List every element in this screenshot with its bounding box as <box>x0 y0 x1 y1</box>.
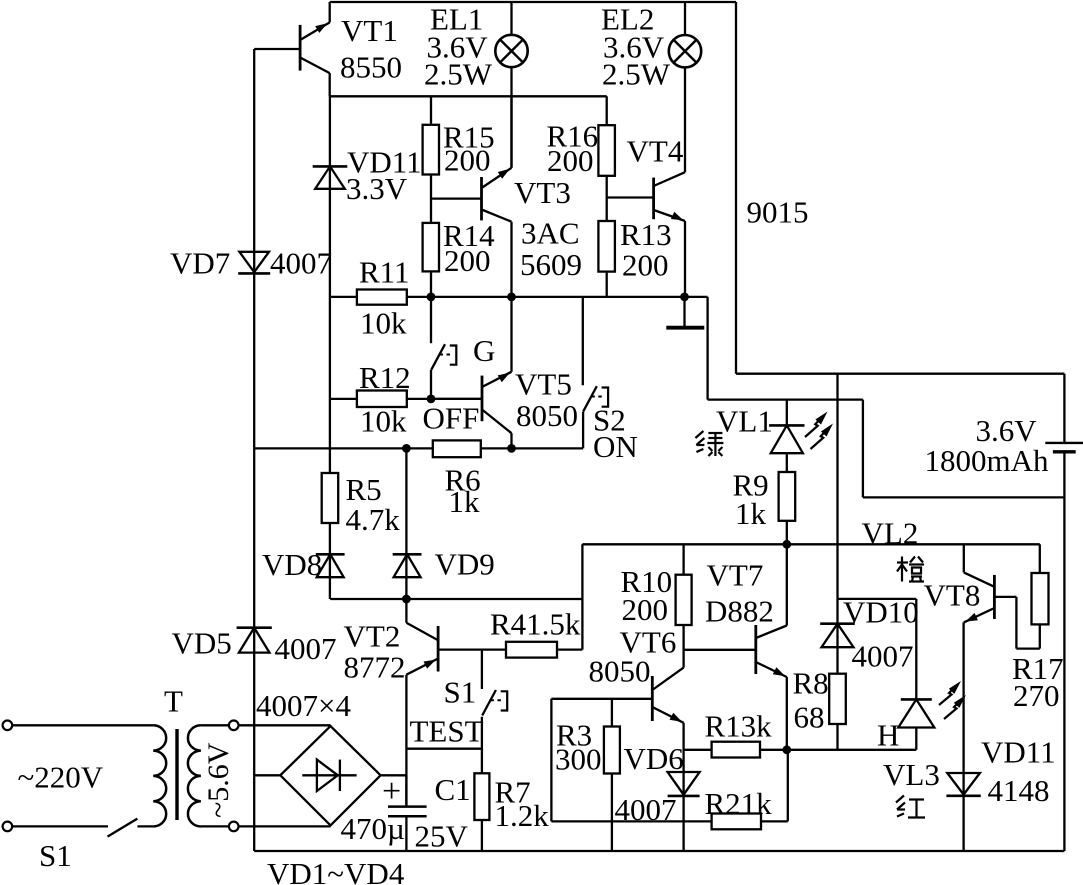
label VD7 <box>170 246 230 281</box>
svg-text:8050: 8050 <box>516 398 578 433</box>
label R11 10k <box>360 306 407 341</box>
wire H column <box>915 599 917 700</box>
svg-text:200: 200 <box>547 143 594 178</box>
label R9 1k <box>735 496 767 531</box>
wire bridge right <box>381 774 407 776</box>
wire VL1 branch right riser <box>862 400 864 498</box>
resistor R8 <box>829 674 846 724</box>
LED H (VL2 orange) <box>898 681 966 728</box>
label 220V <box>18 760 104 795</box>
resistor R13 <box>598 221 615 272</box>
svg-text:VT1: VT1 <box>341 13 398 48</box>
label R6 <box>445 463 481 498</box>
wire R11 row <box>330 296 708 298</box>
wire 9015 branch horizontal <box>736 373 1064 375</box>
resistor R10 <box>676 575 692 625</box>
label VD10 4007 <box>852 639 914 674</box>
svg-text:200: 200 <box>622 592 669 627</box>
transistor VT2 <box>406 623 438 675</box>
svg-text:R8: R8 <box>793 666 829 701</box>
svg-text:R12: R12 <box>359 360 411 395</box>
label EL1 <box>430 2 483 37</box>
label 4007x4 <box>256 688 351 723</box>
svg-text:10k: 10k <box>360 306 407 341</box>
label R5 <box>346 472 382 507</box>
wire bridge left <box>254 774 280 776</box>
resistor R14 <box>423 223 439 272</box>
svg-text:R41.5k: R41.5k <box>490 607 581 642</box>
wire VD8-VD9 row <box>330 598 582 600</box>
svg-text:R13k: R13k <box>705 709 773 744</box>
label R15 200 <box>444 143 491 178</box>
terminal secondary top <box>229 721 239 731</box>
label R15 <box>443 120 495 155</box>
label R16 200 <box>547 143 594 178</box>
svg-text:2.5W: 2.5W <box>424 57 493 92</box>
svg-text:VT2: VT2 <box>344 619 401 654</box>
switch S2 <box>583 386 608 412</box>
zener VD11 3.3V <box>313 166 348 188</box>
svg-text:4.7k: 4.7k <box>346 502 401 537</box>
label VL3 <box>883 757 940 792</box>
terminal AC top-left <box>3 721 13 731</box>
svg-text:8772: 8772 <box>344 650 406 685</box>
wire secondary top to bridge <box>239 725 331 727</box>
wire VT2 emitter column <box>405 675 407 807</box>
resistor R4 <box>506 642 557 658</box>
svg-text:H: H <box>877 718 899 753</box>
wire VT6 base row <box>551 698 652 700</box>
label VT7 <box>707 558 764 593</box>
wire bottom bus <box>254 850 1064 852</box>
label VT5 8050 <box>516 398 578 433</box>
label T <box>164 684 183 719</box>
wire G lower link <box>430 370 432 399</box>
wire second rail <box>330 95 607 97</box>
svg-text:VL3: VL3 <box>883 757 940 792</box>
resistor R17 <box>1032 573 1049 624</box>
wire secondary bottom <box>201 825 229 827</box>
label ON <box>593 429 638 464</box>
svg-text:200: 200 <box>444 243 491 278</box>
diode VD8 <box>316 554 345 577</box>
node R12-G <box>427 395 436 404</box>
label R6 1k <box>449 484 481 519</box>
lamp EL2 <box>669 35 701 67</box>
resistor R5 <box>322 473 339 523</box>
label 3.3V <box>346 171 408 206</box>
transformer T core <box>175 729 178 820</box>
svg-text:4007: 4007 <box>275 631 337 666</box>
svg-text:G: G <box>473 333 495 368</box>
terminal secondary bottom <box>229 822 239 832</box>
svg-text:8550: 8550 <box>340 50 402 85</box>
wire EL2-VT4 column <box>684 67 686 172</box>
svg-text:2.5W: 2.5W <box>602 57 671 92</box>
label VD9 <box>435 547 495 582</box>
label 8550 <box>340 50 402 85</box>
label G <box>473 333 495 368</box>
label S1 AC label <box>39 838 72 873</box>
svg-text:8050: 8050 <box>589 654 651 689</box>
label VT2 <box>344 619 401 654</box>
wire R6 row <box>254 447 583 449</box>
label R4 1.5k <box>490 607 581 642</box>
wire R12 row <box>330 398 482 400</box>
wire R2 row <box>551 820 787 822</box>
LED VL1 green <box>769 412 833 454</box>
label battery 3.6V <box>976 413 1038 448</box>
label R12 <box>359 360 411 395</box>
label EL1 3.6V <box>427 30 489 65</box>
wire VL1 top branch <box>708 398 863 400</box>
label R10 200 <box>622 592 669 627</box>
node VT7 emitter <box>782 745 791 754</box>
wire battery column <box>1063 374 1065 851</box>
label EL2 3.6V <box>603 30 665 65</box>
label VD5 4007 <box>275 631 337 666</box>
label VT6 <box>620 625 677 660</box>
resistor R2 <box>712 814 761 830</box>
wire C1 top stem <box>405 775 407 806</box>
wire mid zigzag riser <box>581 544 583 649</box>
svg-text:200: 200 <box>622 248 669 283</box>
label EL2 <box>601 2 654 37</box>
wire R15-R14 column <box>430 96 432 297</box>
svg-text:200: 200 <box>444 143 491 178</box>
label R9 <box>733 468 769 503</box>
bridge rectifier VD1-VD4 <box>280 726 380 825</box>
wire secondary bottom to bridge <box>239 825 331 827</box>
svg-text:68: 68 <box>794 700 825 735</box>
svg-text:R21k: R21k <box>705 786 773 821</box>
label R14 <box>443 218 495 253</box>
svg-text:R11: R11 <box>359 255 410 290</box>
label VD5 <box>172 626 232 661</box>
resistor R16 <box>598 125 615 176</box>
wire VD10 column riser <box>836 374 838 599</box>
label 9015 <box>747 195 809 230</box>
label VT5 <box>515 367 572 402</box>
label VD7 4007 <box>270 246 332 281</box>
label 4148 <box>988 773 1050 808</box>
wire EL1-VT3-VT5 column a <box>510 67 512 168</box>
diode VD11 4148 <box>946 773 980 796</box>
svg-text:3.3V: 3.3V <box>346 171 408 206</box>
wire AC input top <box>12 724 153 726</box>
transistor VT1 <box>254 2 330 96</box>
resistor R3 <box>604 727 620 774</box>
wire VT5 collector drop <box>510 433 512 448</box>
svg-text:VT4: VT4 <box>627 134 684 169</box>
wire VD10 box top <box>838 598 917 600</box>
svg-text:VD10: VD10 <box>843 595 919 630</box>
svg-text:VD9: VD9 <box>435 547 495 582</box>
label C1 plus <box>382 773 401 810</box>
switch S1 AC <box>108 819 138 837</box>
label VD10 <box>843 595 919 630</box>
label EL1 2.5W <box>424 57 493 92</box>
svg-text:OFF: OFF <box>423 401 480 436</box>
svg-text:1k: 1k <box>449 484 481 519</box>
svg-text:5609: 5609 <box>520 247 582 282</box>
transistor VT8 <box>964 572 995 622</box>
node ground rail <box>680 293 689 302</box>
transformer T secondary <box>188 725 201 826</box>
label green char <box>695 431 723 456</box>
wire VD11 column <box>329 96 331 599</box>
wire VT8 base link <box>994 597 1039 649</box>
wire TEST row <box>406 748 482 750</box>
label R3 <box>556 718 592 753</box>
svg-text:300: 300 <box>555 742 602 777</box>
label H <box>877 718 899 753</box>
transistor VT4 <box>607 172 685 221</box>
wire VT8 emitter column <box>962 622 964 851</box>
wire S1 to transformer <box>137 825 153 827</box>
label R7 <box>495 775 531 810</box>
svg-text:25V: 25V <box>415 819 469 854</box>
svg-text:C1: C1 <box>435 772 471 807</box>
label R2 1k <box>705 786 773 821</box>
svg-text:VD1~VD4: VD1~VD4 <box>267 856 405 885</box>
svg-text:VL2: VL2 <box>862 516 919 551</box>
svg-text:VT8: VT8 <box>924 578 981 613</box>
wire VL1-R9 link <box>786 453 788 472</box>
wire R9 bottom stem <box>786 521 788 545</box>
diode VD9 <box>393 554 422 577</box>
svg-text:S1: S1 <box>444 675 477 710</box>
resistor R9 <box>779 472 796 521</box>
wire G upper contact <box>430 297 432 343</box>
node R6 right <box>507 444 516 453</box>
label 5609 <box>520 247 582 282</box>
transistor VT6 <box>652 668 683 723</box>
wire R2 riser <box>787 750 789 822</box>
label S2 <box>593 403 626 438</box>
node VT5 emitter <box>507 293 516 302</box>
wire S2 lower riser <box>582 412 584 449</box>
wire VT8 collector riser <box>963 544 965 572</box>
wire R4-S1 drop <box>481 650 483 689</box>
switch G <box>431 344 456 370</box>
svg-text:VL1: VL1 <box>716 404 773 439</box>
label R7 1.2k <box>495 798 550 833</box>
label battery 1800mAh <box>925 443 1050 478</box>
wire EL2 top stem <box>684 2 686 35</box>
label VD8 <box>262 547 322 582</box>
wire VT6 emitter column <box>682 723 684 851</box>
svg-text:ON: ON <box>593 429 638 464</box>
label R13 200 <box>622 248 669 283</box>
wire S1-R7 column <box>481 717 483 851</box>
label R8 <box>793 666 829 701</box>
label VT1 <box>341 13 398 48</box>
label 25V <box>415 819 469 854</box>
svg-text:~5.6V: ~5.6V <box>202 742 235 818</box>
label R10 <box>621 564 673 599</box>
svg-text:3AC: 3AC <box>521 216 580 251</box>
svg-text:VD11: VD11 <box>981 735 1056 770</box>
resistor R11 <box>357 290 407 305</box>
label VD11 4148 name <box>981 735 1056 770</box>
label R11 <box>359 255 410 290</box>
wire R3 stem <box>611 699 613 851</box>
wire EL1 top stem <box>510 2 512 35</box>
wire battery bottom branch <box>863 496 1065 498</box>
label VT8 <box>924 578 981 613</box>
resistor R6 <box>433 440 481 457</box>
terminal AC bottom-left <box>3 822 13 832</box>
svg-text:4007: 4007 <box>852 639 914 674</box>
label R16 <box>547 119 599 154</box>
svg-text:VD7: VD7 <box>170 246 230 281</box>
label TEST <box>410 714 484 749</box>
node R9 bottom <box>782 540 791 549</box>
transformer T primary <box>153 725 166 826</box>
svg-text:4007×4: 4007×4 <box>256 688 351 723</box>
svg-text:D882: D882 <box>705 594 774 629</box>
diode VD7 <box>238 252 270 274</box>
label R17 270 <box>1013 678 1060 713</box>
diode VD10 <box>820 624 855 648</box>
capacitor C1 <box>388 807 427 817</box>
wire VT6 base box left <box>550 699 552 822</box>
svg-text:TEST: TEST <box>410 714 484 749</box>
label R13 <box>620 217 672 252</box>
svg-text:1k: 1k <box>735 496 767 531</box>
transistor VT7 <box>684 625 787 677</box>
diode VD5 <box>237 628 272 653</box>
transistor VT3 <box>431 96 512 221</box>
wire VL1 stem <box>786 400 788 426</box>
wire R17 top stem <box>1039 544 1041 573</box>
wire R10 drop <box>682 544 684 574</box>
svg-text:1800mAh: 1800mAh <box>925 443 1050 478</box>
wire R10-VT6 link <box>682 625 684 668</box>
node VD9-VT2 <box>402 595 411 604</box>
label VD6 <box>624 741 684 776</box>
svg-text:9015: 9015 <box>747 195 809 230</box>
label C1 <box>435 772 471 807</box>
svg-text:470µ: 470µ <box>341 811 405 846</box>
resistor R15 <box>423 125 439 175</box>
wire VT3-VT5 column b <box>510 222 512 372</box>
ground <box>666 297 704 328</box>
label EL2 2.5W <box>602 57 671 92</box>
svg-text:4148: 4148 <box>988 773 1050 808</box>
label 5.6V rotated <box>202 742 235 818</box>
resistor R7 <box>474 773 489 820</box>
wire R1 row to H box bottom <box>684 749 917 751</box>
wire R16-R13 column <box>606 96 608 297</box>
label R1 3k <box>705 709 773 744</box>
resistor R1 <box>712 742 760 758</box>
label VD11 <box>347 145 422 180</box>
label VT6 8050 <box>589 654 651 689</box>
label R8 68 <box>794 700 825 735</box>
wire top supply rail <box>330 1 736 3</box>
label red char <box>896 796 925 818</box>
label orange char <box>897 557 924 582</box>
wire VT7 emitter drop <box>786 677 788 750</box>
wire left column VT1 base <box>253 49 255 851</box>
svg-text:+: + <box>382 773 401 810</box>
svg-text:270: 270 <box>1013 678 1060 713</box>
wire mid supply row <box>582 543 1039 545</box>
node R11-G <box>427 293 436 302</box>
svg-text:4007: 4007 <box>270 246 332 281</box>
diode VD6 <box>668 772 700 796</box>
battery GB 3.6V <box>1045 443 1083 452</box>
wire AC input bottom <box>12 825 108 827</box>
wire VT7 collector riser <box>786 544 788 625</box>
svg-text:1.2k: 1.2k <box>495 798 550 833</box>
label D882 <box>705 594 774 629</box>
label R14 200 <box>444 243 491 278</box>
label VD1-VD4 <box>267 856 405 885</box>
wire secondary top <box>201 724 229 726</box>
node R6 left <box>402 444 411 453</box>
wire VT4 emitter drop <box>684 221 686 297</box>
label R12 10k <box>360 404 407 439</box>
label R3 300 <box>555 742 602 777</box>
svg-text:VT5: VT5 <box>515 367 572 402</box>
wire ground branch riser <box>706 297 708 400</box>
svg-text:~220V: ~220V <box>18 760 104 795</box>
svg-text:VD8: VD8 <box>262 547 322 582</box>
wire R17 bottom stem <box>1039 624 1041 648</box>
svg-text:VT7: VT7 <box>707 558 764 593</box>
label VD6 4007 <box>615 792 677 827</box>
wire VD9 column <box>405 448 407 622</box>
label VT4 <box>627 134 684 169</box>
label OFF <box>423 401 480 436</box>
label VL2 <box>862 516 919 551</box>
label S1 TEST label <box>444 675 477 710</box>
svg-text:T: T <box>164 684 183 719</box>
svg-text:VD6: VD6 <box>624 741 684 776</box>
wire VT2 base row <box>438 648 582 650</box>
label 3AC <box>521 216 580 251</box>
transistor VT5 <box>431 372 512 433</box>
svg-text:10k: 10k <box>360 404 407 439</box>
switch S1 TEST <box>482 690 507 716</box>
svg-text:VT3: VT3 <box>514 175 571 210</box>
wire 9015 column <box>735 2 737 374</box>
label 8772 <box>344 650 406 685</box>
wire VD10-R8 column <box>836 599 838 750</box>
svg-text:VD5: VD5 <box>172 626 232 661</box>
lamp EL1 <box>495 35 527 67</box>
label R17 <box>1012 651 1064 686</box>
wire H lower stem <box>915 728 917 750</box>
wire C1 lower column <box>405 817 407 851</box>
wire S2 riser <box>582 297 584 385</box>
label 470u <box>341 811 405 846</box>
svg-text:S1: S1 <box>39 838 72 873</box>
label VT3 <box>514 175 571 210</box>
label VL1 <box>716 404 773 439</box>
label R5 4.7k <box>346 502 401 537</box>
resistor R12 <box>357 391 407 408</box>
svg-text:4007: 4007 <box>615 792 677 827</box>
